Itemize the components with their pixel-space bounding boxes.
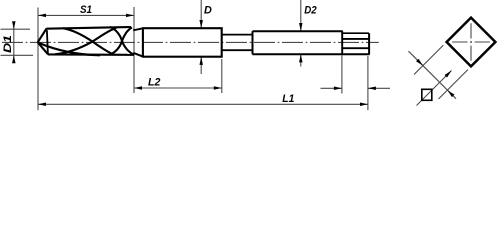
dimension S1 line: [38, 14, 134, 16]
extension line at shank end x=367.9: [367, 56, 369, 110]
dimension D1 line: [13, 22, 15, 62]
dimension D1 extension lines: [1, 28, 31, 30]
flute helix ascending long: [55, 28, 116, 55]
flute helix ascending end: [110, 27, 132, 54]
taper bottom: [133, 53, 143, 57]
centerline axis: [2, 41, 379, 43]
extension line at cylinder end x=221.8: [221, 59, 223, 93]
dimension square-length lines: [321, 87, 342, 89]
end view centerline horizontal: [452, 41, 490, 43]
square dim line: [409, 51, 457, 98]
square symbol leader: [417, 71, 452, 106]
dimension L1 line: [38, 103, 368, 105]
square drive top silhouette: [342, 32, 369, 34]
dimension D lines: [200, 0, 202, 28]
shank top edge: [253, 30, 343, 32]
drill point upper edge: [38, 29, 47, 43]
end view square (diamond): [447, 18, 496, 67]
shank left face: [252, 31, 254, 54]
svg-text:D: D: [204, 4, 212, 16]
square dim extension from bottom corner: [439, 70, 468, 99]
square drive upper slot line: [342, 38, 369, 40]
svg-text:L1: L1: [282, 93, 294, 105]
extension line at square start x=341.9: [341, 56, 343, 94]
taper top: [133, 28, 143, 30]
flute helix descending end: [110, 27, 134, 55]
neck top: [222, 34, 253, 36]
dimension L2 line: [134, 87, 222, 89]
flute helix descending long: [63, 28, 114, 54]
svg-text:S1: S1: [80, 4, 92, 16]
shank bottom edge: [253, 53, 370, 55]
end view centerline vertical: [470, 23, 472, 61]
flute top tangent: [46, 27, 131, 29]
dimension D2 lines: [300, 0, 302, 31]
svg-text:D1: D1: [2, 35, 14, 53]
cylinder body: [143, 28, 222, 57]
flute helix from tip: [38, 43, 100, 56]
square drive left bar: [341, 31, 343, 54]
square dim extension from left corner: [414, 45, 443, 74]
neck bottom: [222, 49, 253, 51]
square drive lower slot line: [342, 47, 369, 49]
extension line at flute end x=134: [133, 7, 135, 93]
svg-text:L2: L2: [148, 76, 161, 88]
drill point lower edge: [38, 42, 48, 54]
shank end face: [368, 33, 370, 54]
svg-text:D2: D2: [304, 4, 317, 16]
extension line at drill tip x=38: [37, 8, 39, 111]
square symbol: [422, 89, 432, 100]
flute bottom tangent: [48, 53, 134, 55]
drill point flank line: [47, 30, 48, 54]
